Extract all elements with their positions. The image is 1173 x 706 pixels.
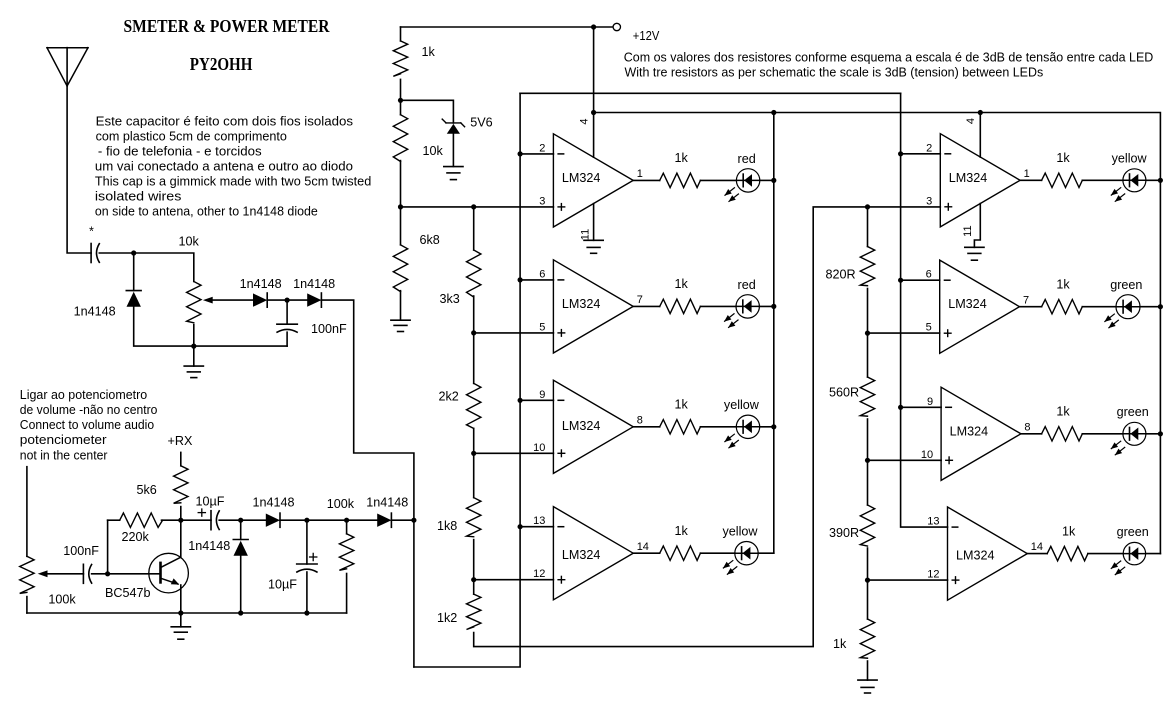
svg-text:100k: 100k [327,497,355,511]
svg-text:1n4148: 1n4148 [188,539,230,553]
wire volume pot top lead [26,467,28,557]
svg-text:12: 12 [927,569,939,581]
svg-text:yellow: yellow [724,398,760,412]
wire node A to diode [133,253,135,291]
op-amp U2B (LM324) [926,260,1030,353]
resistor 560R [860,377,874,416]
svg-text:1k: 1k [675,398,689,412]
svg-text:14: 14 [1031,541,1043,553]
svg-text:100nF: 100nF [63,544,99,558]
svg-text:5k6: 5k6 [137,483,157,497]
resistor 1k2 [467,594,481,629]
wire +12V terminal stub [594,26,614,28]
op-amp U1C (LM324) [533,380,643,473]
capacitor 10uF (coupling) [198,509,219,530]
diode 1n4148 (output) [377,513,391,527]
svg-text:on side to antena, other to 1n: on side to antena, other to 1n4148 diode [95,204,318,218]
svg-text:1k: 1k [675,524,689,538]
wire tap to right pin12 [868,579,948,581]
svg-text:*: * [89,225,94,239]
wire 100nF to base node [92,573,108,575]
svg-text:1n4148: 1n4148 [74,305,116,319]
svg-text:9: 9 [539,389,545,401]
wire tap to pin12 [474,579,554,581]
node rail2 LED bus left [771,110,776,115]
resistor 1k (output row 2) [660,299,701,313]
node LED bus row 5 [1158,178,1163,183]
wire 1k2 bottom to right ladder [474,207,941,647]
resistor 1k (output row 4) [660,546,701,560]
potentiometer 10k [187,282,201,323]
wire pin4 U1 [593,113,595,158]
node rail 10uF [304,610,309,615]
node right bus pin9 [898,405,903,410]
wire 3k3-2k2 [473,296,475,383]
resistor 1k8 [467,498,481,537]
svg-text:This cap is a gimmick made wit: This cap is a gimmick made with two 5cm … [95,174,371,188]
wire 220k right stub [162,519,181,521]
node detector join [411,518,416,523]
wire volume pot bottom [26,597,28,613]
resistor 5k6 [174,466,188,504]
svg-text:+12V: +12V [633,29,660,43]
resistor 390R [860,505,874,546]
resistor 1k (output row 8) [1047,546,1088,560]
wire 1k to LED row 5 [1082,179,1123,181]
node LED bus row 3 [771,424,776,429]
svg-text:potenciometer: potenciometer [20,433,107,447]
wire 820R-560R [867,289,869,378]
node LED bus row 6 [1158,304,1163,309]
wire LED to +12V bus row 3 [760,426,774,428]
resistor 10k (divider) [393,115,407,162]
svg-text:13: 13 [533,515,545,527]
node ladder tap pin12 [471,577,476,582]
svg-text:LM324: LM324 [950,424,989,438]
svg-text:13: 13 [927,516,939,528]
node +12V [591,24,596,29]
node right tap pin5 [865,331,870,336]
svg-text:LM324: LM324 [562,171,601,185]
wire to zener [401,100,454,123]
wire emitter [180,585,182,613]
svg-text:6: 6 [926,269,932,281]
ground pin11 U1 [584,240,603,253]
wire output row 7 to 1k [1021,433,1042,435]
wire left pin9 stub [520,399,553,401]
svg-text:1n4148: 1n4148 [293,277,335,291]
svg-text:100k: 100k [48,592,76,606]
wire output row 3 to 1k [633,426,660,428]
wire shunt diode to ground rail [134,307,287,346]
resistor 220k [120,513,163,527]
wire 3k3 top stub [473,207,475,250]
svg-text:11: 11 [579,229,591,240]
node right tap pin10 [865,458,870,463]
wire 100k top stub [346,520,348,534]
diode 1n4148 (detector 1) [253,293,267,307]
wire LED to +12V bus row 6 [1140,306,1160,308]
resistor 1k (output row 7) [1042,427,1083,441]
wire left minus bus [414,93,520,667]
wire signal bus top rail [520,92,901,94]
node A (detector input) [131,250,136,255]
svg-text:10k: 10k [179,235,200,249]
svg-text:10: 10 [921,449,933,461]
resistor 1k (output row 3) [660,420,701,434]
svg-text:LM324: LM324 [948,297,987,311]
svg-text:isolated wires: isolated wires [95,189,181,203]
wire base [108,573,160,575]
wire tap to pin5 [474,332,554,334]
wire left pin6 stub [520,279,553,281]
wire wiper to 100nF [48,573,84,575]
svg-text:red: red [738,278,756,292]
wire 1k to LED row 1 [700,179,736,181]
wire LED to +12V bus row 8 [1146,553,1161,555]
svg-text:9: 9 [927,396,933,408]
wire tap to right pin5 [868,332,940,334]
wire tap to pin10 [474,452,554,454]
node ladder tap pin10 [471,451,476,456]
ground (zener) [444,167,463,180]
svg-text:100nF: 100nF [311,322,347,336]
node rail2 pin4 left [591,110,596,115]
node divider tap [398,204,403,209]
wire zener to ground [452,134,454,167]
wire LED to +12V bus row 7 [1146,433,1161,435]
potentiometer wiper arrow (100k) [38,570,48,577]
wire detector node [267,299,307,301]
wire 10uF filter bottom [306,572,308,613]
wire series diode out [280,519,347,521]
resistor 820R [860,247,874,286]
wire LED to +12V bus row 5 [1146,179,1161,181]
svg-text:green: green [1110,278,1142,292]
svg-text:10µF: 10µF [196,495,225,509]
diode 1n4148 (doubler series) [266,513,280,527]
LED yellow (row 3) [724,415,759,448]
op-amp U2A (LM324) [926,134,1030,227]
wire right pin9 stub [901,406,942,408]
wire 5k6 to collector node [180,507,182,521]
wire antenna lead [67,48,91,253]
potentiometer 100k (volume) [20,556,34,593]
svg-text:4: 4 [965,118,977,124]
svg-text:1n4148: 1n4148 [366,496,408,510]
wire 390R-1k [867,548,869,619]
node LED bus row 2 [771,304,776,309]
resistor 6k8 (divider) [393,245,407,292]
svg-text:2k2: 2k2 [439,390,459,404]
wire pin11 U2 [974,204,980,248]
capacitor 100nF (filter) [277,324,297,332]
op-amp U1A (LM324) [539,134,643,227]
LED red (row 2) [724,295,759,328]
LED red (row 1) [725,169,760,202]
wire LED to +12V bus row 4 [758,552,774,554]
svg-text:LM324: LM324 [562,548,601,562]
svg-text:5: 5 [539,321,545,333]
wire 1k to LED row 4 [700,552,734,554]
wire pot ground stem [193,346,195,366]
wire tap to right pin10 [868,459,942,461]
wire 100k bottom [346,574,348,614]
wire collector node to cap [181,519,211,521]
svg-text:6: 6 [539,268,545,280]
wire 1k to LED row 3 [700,426,736,428]
diode 1n4148 (doubler shunt) [233,540,248,556]
node doubler 1 [238,518,243,523]
svg-text:14: 14 [637,541,649,553]
potentiometer wiper arrow (10k) [203,297,213,304]
wire doubler node [241,519,266,521]
node 100k top [344,518,349,523]
wire 220k feedback down [107,520,109,574]
svg-text:yellow: yellow [1112,152,1148,166]
node rail2 pin4 right [978,110,983,115]
svg-text:8: 8 [637,414,643,426]
svg-text:12: 12 [533,568,545,580]
LED yellow (row 5) [1111,169,1146,202]
wire pin11 U1 [593,204,595,241]
svg-text:1k8: 1k8 [437,519,457,533]
svg-text:10: 10 [533,442,545,454]
svg-text:Connect to volume audio: Connect to volume audio [20,418,154,432]
svg-text:green: green [1117,405,1149,419]
svg-text:red: red [738,152,756,166]
ground (right ladder) [858,680,877,693]
svg-text:3: 3 [539,195,545,207]
wire output row 1 to 1k [633,179,660,181]
svg-text:yellow: yellow [723,525,759,539]
svg-text:Este capacitor é feito com doi: Este capacitor é feito com dois fios iso… [96,114,353,128]
wire left LED anode bus [773,113,775,554]
wire 1k top stub [400,27,402,41]
wire 10uF filter top [306,520,308,564]
capacitor gimmick (antenna) [91,244,99,263]
svg-text:1: 1 [1024,168,1030,180]
wire +12V down to rail [593,27,595,113]
svg-text:de volume -não no centro: de volume -não no centro [20,403,158,417]
diode 1n4148 (shunt) [126,291,141,307]
node rail doubler shunt [238,610,243,615]
node collector / 5k6 / 220k [178,518,183,523]
wire cap to node A [99,252,133,254]
svg-text:1k: 1k [1062,524,1076,538]
svg-text:1k: 1k [1056,405,1070,419]
wire collector [180,520,182,557]
node LED bus row 1 [771,178,776,183]
svg-text:1n4148: 1n4148 [240,277,282,291]
node rail emitter [178,610,183,615]
svg-text:10µF: 10µF [268,577,297,591]
op-amp U1B (LM324) [539,260,643,353]
wire 1k to LED row 8 [1088,553,1123,555]
wire output row 8 to 1k [1027,553,1047,555]
wire 560R-390R [867,419,869,505]
node base / 220k [105,571,110,576]
svg-text:1k: 1k [675,277,689,291]
wire cap to diode node [219,519,241,521]
antenna [47,48,88,86]
zener 5V6 [442,119,464,134]
ground (6k8) [391,320,410,331]
op-amp U2D (LM324) [927,507,1043,600]
node right bus pin2 [898,151,903,156]
svg-text:820R: 820R [826,268,856,282]
wire output row 2 to 1k [633,305,660,307]
resistor 1k (output row 1) [660,173,701,187]
svg-text:1: 1 [637,168,643,180]
wire doubler shunt to rail [240,556,242,613]
wire 2k2-1k8 [473,428,475,497]
node left bus pin2 [518,151,523,156]
wire LED to +12V bus row 1 [760,179,774,181]
wire +12V rail [594,113,1161,554]
node right tap pin12 [865,578,870,583]
op-amp U1D (LM324) [533,507,649,600]
wire right minus bus [901,93,948,527]
svg-text:220k: 220k [122,530,150,544]
svg-text:1k: 1k [675,151,689,165]
LED green (row 6) [1104,295,1140,328]
svg-text:5V6: 5V6 [470,116,492,130]
svg-text:1k: 1k [1056,278,1070,292]
wire +RX stub [180,452,182,465]
terminal +12V (open circle) [613,23,620,30]
svg-text:LM324: LM324 [562,297,601,311]
resistor 1k (output row 5) [1042,173,1083,187]
wire pot bottom [193,325,195,347]
wire right pin6 stub [901,279,940,281]
resistor 1k (output row 6) [1042,300,1083,314]
LED yellow (row 4) [723,542,758,575]
node left bus pin6 [518,277,523,282]
wire detector join down [413,520,415,667]
svg-text:not in the center: not in the center [20,448,108,462]
svg-text:4: 4 [579,118,591,124]
svg-text:1n4148: 1n4148 [253,496,295,510]
wire 820R top stub [867,207,869,247]
resistor 1k (right ladder) [860,619,874,658]
wire output row 5 to 1k [1020,179,1042,181]
svg-text:5: 5 [926,322,932,334]
svg-text:green: green [1117,525,1149,539]
svg-text:With tre resistors as per sche: With tre resistors as per schematic the … [625,65,1044,79]
wire rail to ground [180,613,182,627]
wire node A to 10k pot top [134,253,194,282]
wire 1k to LED row 6 [1082,306,1116,308]
svg-text:com plastico 5cm de compriment: com plastico 5cm de comprimento [96,129,287,143]
wire filter cap top [286,300,288,324]
svg-text:7: 7 [1023,294,1029,306]
node divider 5V6 [398,98,403,103]
svg-text:7: 7 [637,294,643,306]
node ladder tap pin5 [471,330,476,335]
svg-text:6k8: 6k8 [420,233,440,247]
wire tap to pin3 [401,206,554,208]
resistor 3k3 [467,250,481,297]
wire 220k left stub [108,519,120,521]
node LED bus row 7 [1158,431,1163,436]
wire right pin2 stub [901,153,941,155]
resistor 2k2 [467,383,481,428]
wire output row 6 to 1k [1020,306,1042,308]
wire 6k8 to ground [400,291,402,320]
svg-text:PY2OHH: PY2OHH [190,54,253,74]
svg-text:1k: 1k [1056,151,1070,165]
svg-text:Com os valores dos resistores: Com os valores dos resistores conforme e… [624,50,1154,64]
LED green (row 8) [1111,542,1146,575]
wire detector output [321,300,414,520]
transistor Q1 BC547b [149,553,189,593]
svg-text:- fio de telefonia - e torcido: - fio de telefonia - e torcidos [98,144,262,158]
capacitor 10uF (filter) [297,553,317,572]
node detector filter [285,298,290,303]
svg-text:LM324: LM324 [562,419,601,433]
wire left pin2 stub [520,153,553,155]
node ground rail / pot [191,344,196,349]
ground (detector) [184,366,203,378]
capacitor 100nF (audio in) [83,564,91,583]
svg-text:560R: 560R [829,385,859,399]
wire doubler diode down [240,520,242,539]
resistor 100k (load) [339,534,353,571]
wire 1k to ground [867,661,869,680]
node right bus pin6 [898,278,903,283]
svg-text:8: 8 [1024,421,1030,433]
wire output row 4 to 1k [633,552,660,554]
node doubler 2 [304,518,309,523]
wire output diode to join [391,519,414,521]
wire left pin13 stub [520,526,553,528]
wire 10k to tap [400,161,402,245]
wire pin4 U2 [979,113,981,158]
svg-text:LM324: LM324 [949,171,988,185]
svg-text:1k2: 1k2 [437,611,457,625]
svg-text:BC547b: BC547b [105,586,151,600]
diode 1n4148 (detector 2) [307,293,321,307]
node left bus pin9 [518,398,523,403]
resistor 1k (divider top) [393,41,407,76]
wire 1k8-1k2 [473,540,475,595]
ground pin11 U2 [965,247,984,260]
LED green (row 7) [1111,422,1146,455]
wire 1k to 10k [400,79,402,114]
wire to output diode [347,519,378,521]
svg-text:3: 3 [926,195,932,207]
wire filter cap bottom [286,332,288,346]
ground (emitter rail) [171,627,190,639]
wire wiper to diode [213,299,254,301]
node right ladder top [865,204,870,209]
wire +12V feed [401,26,594,28]
wire LED to +12V bus row 2 [759,305,773,307]
svg-text:10k: 10k [423,144,444,158]
svg-text:SMETER & POWER METER: SMETER & POWER METER [124,16,331,36]
svg-text:um vai conectado a antena e ou: um vai conectado a antena e outro ao dio… [95,159,353,173]
svg-text:390R: 390R [829,526,859,540]
wire emitter ground rail [27,612,347,614]
svg-text:LM324: LM324 [956,549,995,563]
svg-text:11: 11 [962,225,974,236]
svg-text:1k: 1k [833,637,847,651]
node left bus pin13 [518,524,523,529]
svg-text:3k3: 3k3 [440,292,460,306]
wire 1k to LED row 2 [700,305,736,307]
op-amp U2C (LM324) [921,387,1031,480]
